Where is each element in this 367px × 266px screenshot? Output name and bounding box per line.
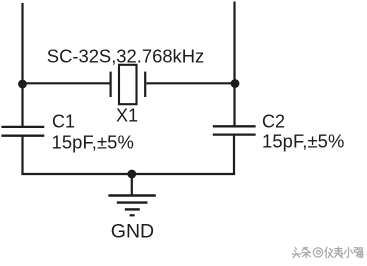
wire: bottom rail [21, 173, 235, 175]
capacitor C2: bottom plate [213, 133, 256, 135]
capacitor C1: bottom plate [1, 135, 44, 137]
svg-text:GND: GND [111, 221, 154, 243]
wire: ground stub [131, 174, 133, 196]
watermark char 条 [302, 247, 310, 257]
crystal X1: right plate [144, 72, 146, 97]
capacitor C2: top plate [213, 125, 256, 127]
wire: C1 bottom lead [21, 137, 23, 176]
watermark: 头条@仪表小强 [292, 247, 362, 258]
wire: right vertical from top to C2 [233, 2, 235, 127]
wire: C2 bottom lead [233, 136, 235, 175]
ground: bar 3 [125, 208, 140, 210]
node: junction dot left [18, 80, 27, 89]
watermark char 表 [334, 247, 343, 258]
ground: bar 4 [130, 214, 135, 216]
capacitor C1: top plate [1, 126, 44, 128]
node: junction dot right [231, 79, 240, 88]
watermark char @ [313, 248, 322, 257]
crystal X1: body rectangle [119, 65, 137, 104]
svg-text:15pF,±5%: 15pF,±5% [262, 130, 344, 151]
svg-text:SC-32S,32.768kHz: SC-32S,32.768kHz [47, 45, 204, 66]
svg-text:X1: X1 [116, 106, 138, 126]
wire: left vertical from top to C1 [21, 3, 23, 126]
svg-text:C1: C1 [52, 112, 75, 132]
watermark char 小 [344, 247, 352, 257]
watermark char 仪 [325, 247, 333, 257]
watermark char 头 [292, 248, 301, 258]
watermark char 强 [354, 248, 362, 258]
svg-text:C2: C2 [262, 112, 285, 132]
ground: bar 2 [117, 201, 148, 203]
crystal X1: left plate [109, 72, 111, 97]
svg-text:15pF,±5%: 15pF,±5% [52, 132, 134, 153]
ground: bar 1 [108, 194, 155, 196]
node: ground junction dot [127, 170, 136, 179]
wire: horizontal right segment from crystal [147, 82, 236, 84]
wire: horizontal left segment to crystal [22, 82, 110, 84]
